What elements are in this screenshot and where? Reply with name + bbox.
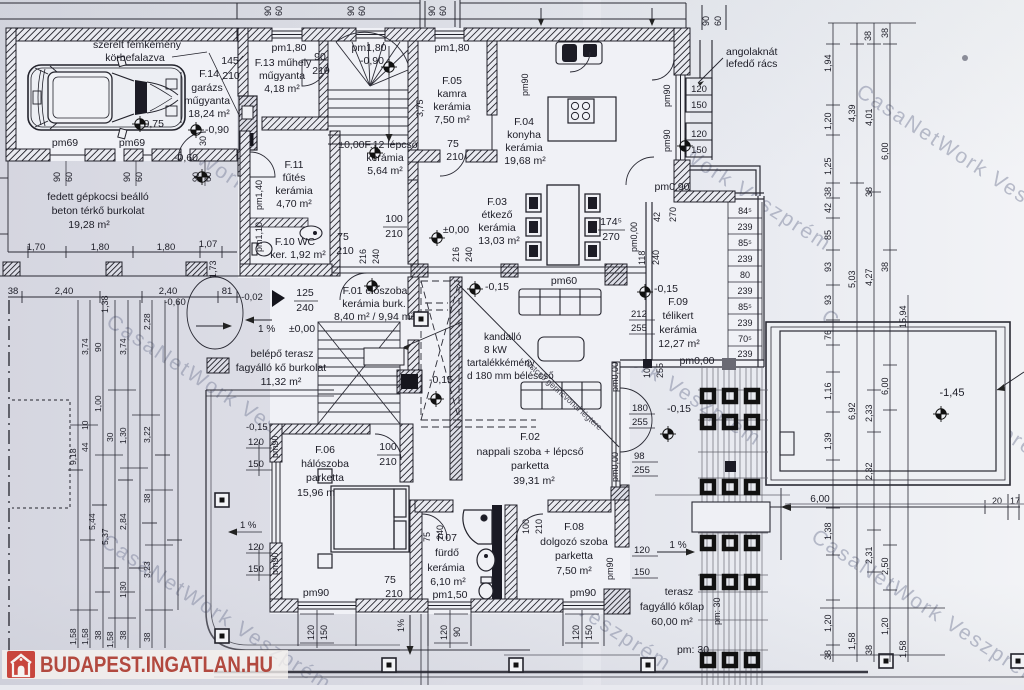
svg-text:240: 240 — [464, 247, 474, 262]
corner pier SE — [604, 589, 630, 614]
svg-text:210: 210 — [312, 65, 330, 77]
svg-text:pm1,50: pm1,50 — [432, 589, 467, 601]
svg-text:75: 75 — [447, 138, 459, 150]
svg-text:d 180 mm béléscső: d 180 mm béléscső — [467, 371, 554, 382]
svg-text:pm1,40: pm1,40 — [254, 180, 264, 210]
svg-text:-0,15: -0,15 — [429, 374, 453, 386]
svg-text:pm1,10: pm1,10 — [254, 222, 264, 252]
svg-text:2,31: 2,31 — [864, 546, 874, 564]
svg-text:szerelt fémkémény: szerelt fémkémény — [93, 39, 182, 51]
svg-text:38: 38 — [880, 262, 890, 272]
svg-text:pm90: pm90 — [520, 73, 530, 96]
svg-text:15,96 m: 15,96 m — [297, 487, 335, 499]
building footprint (white floor areas) — [6, 28, 764, 614]
svg-text:90: 90 — [93, 342, 103, 352]
svg-text:4,70 m²: 4,70 m² — [276, 198, 312, 210]
svg-text:210: 210 — [446, 151, 464, 163]
svg-text:60: 60 — [274, 6, 284, 16]
svg-text:fedett gépkocsi beálló: fedett gépkocsi beálló — [47, 191, 149, 203]
wall garage west — [6, 28, 16, 152]
svg-text:93: 93 — [823, 295, 833, 305]
svg-text:F.06: F.06 — [315, 444, 335, 456]
svg-text:1,25: 1,25 — [823, 157, 833, 175]
svg-text:212: 212 — [631, 309, 647, 320]
svg-text:6,00: 6,00 — [880, 377, 890, 395]
svg-text:2,28: 2,28 — [142, 313, 152, 330]
svg-text:7,50 m²: 7,50 m² — [556, 565, 592, 577]
svg-text:pm0,90: pm0,90 — [654, 181, 689, 193]
svg-text:kandalló: kandalló — [484, 332, 522, 343]
svg-text:-0,02: -0,02 — [241, 292, 263, 303]
svg-text:terasz: terasz — [665, 586, 694, 598]
svg-text:120: 120 — [248, 542, 264, 553]
terrace bottom step lines — [400, 649, 530, 651]
svg-text:1,58: 1,58 — [80, 628, 90, 645]
svg-text:pm90: pm90 — [662, 129, 672, 152]
svg-text:18,24 m²: 18,24 m² — [188, 108, 230, 120]
svg-text:fagyálló kőlap: fagyálló kőlap — [640, 601, 704, 613]
stairs lower flight by eloszoba — [318, 322, 400, 424]
svg-text:pm90: pm90 — [605, 557, 615, 580]
svg-text:7,50 m²: 7,50 m² — [434, 114, 470, 126]
pool bottom dim line 6,00 / 20/17 — [766, 488, 1020, 560]
svg-text:angolaknát: angolaknát — [726, 46, 777, 58]
svg-text:belépő terasz: belépő terasz — [250, 348, 313, 360]
dolgozo east dim stubs — [629, 320, 658, 578]
svg-text:étkező: étkező — [482, 209, 513, 221]
svg-text:fürdő: fürdő — [435, 547, 459, 559]
svg-text:pm0,00: pm0,00 — [610, 362, 620, 392]
wall haloszoba west — [270, 424, 282, 462]
svg-text:beton térkő burkolat: beton térkő burkolat — [52, 205, 145, 217]
svg-text:100: 100 — [385, 213, 403, 225]
tartalekkemeny black flue — [397, 370, 422, 393]
level node symbols — [188, 122, 204, 138]
svg-text:38: 38 — [142, 632, 152, 642]
svg-text:15,94: 15,94 — [898, 305, 908, 328]
svg-text:1 %: 1 % — [669, 540, 686, 551]
svg-text:90: 90 — [427, 6, 437, 16]
svg-text:85⁵: 85⁵ — [738, 302, 752, 312]
svg-text:nappali szoba + lépcső: nappali szoba + lépcső — [476, 446, 583, 458]
svg-text:F.11: F.11 — [284, 159, 303, 171]
svg-text:-0,15: -0,15 — [654, 283, 678, 295]
wall haloszoba top — [282, 424, 370, 434]
mirrors — [117, 56, 126, 67]
svg-text:kerámia: kerámia — [427, 562, 465, 574]
svg-text:42: 42 — [652, 212, 662, 222]
svg-text:1,70: 1,70 — [27, 242, 46, 253]
svg-text:8,40 m² / 9,94 m²: 8,40 m² / 9,94 m² — [334, 311, 414, 323]
open line etkezo/nappali — [332, 267, 646, 273]
svg-text:60: 60 — [438, 6, 448, 16]
svg-text:-0,90: -0,90 — [360, 55, 384, 67]
big diagonal section line — [458, 284, 619, 447]
chimney block — [239, 96, 257, 150]
svg-text:150: 150 — [691, 100, 707, 111]
svg-text:150: 150 — [248, 564, 264, 575]
wall house top (4 segments with window gaps) — [248, 28, 272, 41]
svg-text:210: 210 — [385, 588, 403, 600]
svg-text:kerámia: kerámia — [478, 222, 516, 234]
gray dim line to pool — [785, 503, 1024, 505]
top boundary dimension lines — [0, 0, 726, 30]
svg-text:19,28 m²: 19,28 m² — [68, 219, 110, 231]
svg-text:270: 270 — [668, 207, 678, 222]
svg-text:lefedő rács: lefedő rács — [726, 58, 777, 70]
svg-text:pm90: pm90 — [570, 587, 596, 599]
kitchen counter + sink on top wall — [556, 42, 602, 64]
svg-text:76: 76 — [823, 330, 833, 340]
svg-text:240: 240 — [435, 525, 445, 540]
svg-text:38: 38 — [823, 650, 833, 660]
svg-text:90: 90 — [701, 16, 711, 26]
svg-text:93: 93 — [823, 262, 833, 272]
svg-text:125: 125 — [296, 287, 314, 299]
svg-text:9,18: 9,18 — [68, 448, 78, 465]
bath dark wall — [492, 505, 502, 599]
svg-text:pm90: pm90 — [662, 84, 672, 107]
wall futes/eloszoba divider — [330, 131, 340, 276]
svg-text:120: 120 — [691, 84, 707, 95]
svg-text:4,18 m²: 4,18 m² — [264, 83, 300, 95]
svg-text:44: 44 — [80, 442, 90, 452]
svg-text:11,32 m²: 11,32 m² — [261, 376, 302, 388]
svg-text:1 %: 1 % — [240, 520, 257, 531]
carport side edge lines — [0, 161, 240, 303]
svg-text:F.02: F.02 — [520, 431, 540, 443]
svg-text:239: 239 — [737, 254, 752, 264]
svg-text:kamra: kamra — [437, 88, 466, 100]
svg-text:60,00 m²: 60,00 m² — [651, 616, 693, 628]
svg-text:1,39: 1,39 — [823, 432, 833, 450]
svg-text:1,30: 1,30 — [118, 427, 128, 444]
svg-text:pm0,00: pm0,00 — [610, 452, 620, 482]
svg-text:pm1,80: pm1,80 — [271, 42, 306, 54]
entrance arrow triangle — [272, 290, 285, 307]
wall L to telikert — [674, 191, 735, 202]
svg-text:240: 240 — [296, 302, 314, 314]
svg-text:239: 239 — [737, 349, 752, 359]
svg-text:38: 38 — [8, 286, 19, 297]
wall south of stairs/kamra — [408, 150, 440, 162]
svg-text:174⁵: 174⁵ — [600, 216, 622, 228]
svg-text:90: 90 — [346, 6, 356, 16]
svg-text:2,33: 2,33 — [864, 404, 874, 422]
svg-text:pm1,80: pm1,80 — [434, 42, 469, 54]
svg-text:konyha: konyha — [507, 129, 541, 141]
shower — [463, 510, 492, 544]
svg-text:4,39: 4,39 — [847, 104, 857, 122]
telikert south door posts — [722, 358, 736, 370]
svg-text:8 kW: 8 kW — [484, 345, 507, 356]
svg-text:pm69: pm69 — [119, 137, 145, 149]
telikert east double wall — [757, 196, 759, 367]
svg-text:19,68 m²: 19,68 m² — [504, 155, 546, 167]
svg-text:270: 270 — [602, 231, 620, 243]
svg-text:210: 210 — [336, 245, 354, 257]
wall futes/WC divider — [250, 218, 308, 227]
logo house icon — [7, 651, 35, 678]
svg-text:1,80: 1,80 — [91, 242, 110, 253]
svg-text:81: 81 — [222, 286, 233, 297]
svg-text:F.09: F.09 — [668, 296, 688, 308]
leader lines F.14 — [172, 52, 207, 57]
svg-text:-0,15: -0,15 — [246, 422, 268, 433]
svg-text:150: 150 — [634, 567, 650, 578]
svg-text:239: 239 — [737, 222, 752, 232]
svg-text:1,80: 1,80 — [157, 242, 176, 253]
wc furdo — [479, 577, 493, 599]
svg-text:F.04: F.04 — [514, 116, 534, 128]
svg-text:42: 42 — [823, 203, 833, 213]
svg-text:210: 210 — [222, 70, 240, 82]
svg-text:120: 120 — [439, 625, 449, 640]
svg-text:kerámia: kerámia — [275, 185, 313, 197]
svg-text:38: 38 — [864, 645, 874, 655]
svg-text:pm0,00: pm0,00 — [679, 355, 714, 367]
wall furdo west — [410, 500, 422, 599]
svg-text:255: 255 — [631, 323, 647, 334]
svg-text:1,20: 1,20 — [880, 617, 890, 635]
svg-text:239: 239 — [737, 318, 752, 328]
svg-text:108: 108 — [642, 363, 652, 378]
svg-text:3,74: 3,74 — [118, 338, 128, 355]
svg-text:dolgozó szoba: dolgozó szoba — [540, 536, 608, 548]
svg-text:30: 30 — [198, 136, 208, 146]
property dashed line — [8, 300, 10, 660]
svg-text:1,07: 1,07 — [199, 239, 218, 250]
svg-text:90: 90 — [314, 51, 326, 63]
wall garage top — [6, 28, 237, 41]
wall etkezo/eloszoba divider — [408, 180, 418, 264]
svg-text:garázs: garázs — [191, 82, 223, 94]
svg-text:6,92: 6,92 — [847, 402, 857, 420]
svg-text:pm60: pm60 — [551, 275, 577, 287]
svg-text:6,10 m²: 6,10 m² — [430, 576, 466, 588]
svg-text:38: 38 — [142, 493, 152, 503]
speck — [962, 55, 968, 61]
carport dim labels — [8, 239, 263, 308]
west window glazing — [272, 462, 280, 543]
svg-text:1,94: 1,94 — [823, 54, 833, 72]
svg-text:100: 100 — [379, 441, 397, 453]
south window glazing — [298, 602, 604, 609]
wall garage/house divider + chimney — [238, 28, 248, 96]
svg-text:1,58: 1,58 — [68, 628, 78, 645]
svg-text:kerámia: kerámia — [505, 142, 543, 154]
svg-text:-1,45: -1,45 — [939, 387, 964, 399]
svg-text:80: 80 — [740, 270, 750, 280]
svg-text:150: 150 — [691, 145, 707, 156]
outdoor table — [692, 502, 770, 532]
svg-text:216: 216 — [358, 249, 368, 264]
svg-text:210: 210 — [534, 519, 544, 534]
svg-text:255: 255 — [632, 417, 648, 428]
svg-text:84⁵: 84⁵ — [738, 206, 752, 216]
svg-text:-0,60: -0,60 — [174, 152, 198, 164]
svg-text:1,38: 1,38 — [100, 295, 110, 313]
svg-text:3,22: 3,22 — [142, 426, 152, 443]
svg-text:pm: 30: pm: 30 — [712, 597, 722, 625]
wall dolgozo west — [505, 505, 517, 599]
carport piers row — [3, 262, 229, 373]
svg-text:150: 150 — [584, 625, 594, 640]
svg-text:38: 38 — [880, 28, 890, 38]
svg-text:2,84: 2,84 — [118, 513, 128, 530]
telikert south line — [620, 359, 764, 361]
svg-text:38: 38 — [864, 187, 874, 197]
svg-text:38: 38 — [118, 630, 128, 640]
svg-text:-0,90: -0,90 — [205, 124, 229, 136]
window glazing in top wall — [272, 31, 464, 38]
svg-text:1,58: 1,58 — [105, 631, 115, 648]
svg-text:118: 118 — [637, 251, 647, 265]
svg-text:120: 120 — [634, 545, 650, 556]
svg-text:-0,15: -0,15 — [667, 403, 691, 415]
svg-text:1,58: 1,58 — [847, 632, 857, 650]
svg-text:90: 90 — [263, 6, 273, 16]
svg-text:ker. 1,92 m²: ker. 1,92 m² — [270, 249, 326, 261]
kandallo chimney wall strip — [450, 277, 462, 480]
svg-text:3,23: 3,23 — [142, 561, 152, 578]
svg-text:98: 98 — [634, 451, 645, 462]
svg-text:F.01 előszoba: F.01 előszoba — [343, 285, 408, 297]
entrance mat — [364, 348, 404, 365]
svg-text:180: 180 — [632, 403, 648, 414]
nappali east pier — [611, 487, 629, 500]
svg-text:39,31 m²: 39,31 m² — [513, 475, 555, 487]
wall west of futes/WC — [240, 131, 250, 276]
svg-text:2,40: 2,40 — [55, 286, 74, 297]
nappali east window glazing — [612, 362, 620, 487]
window dim stubs west wall — [230, 442, 272, 581]
svg-text:216: 216 — [451, 247, 461, 262]
svg-text:240: 240 — [371, 249, 381, 264]
bottom terrace long edge — [214, 671, 868, 674]
svg-text:1%: 1% — [396, 619, 406, 632]
wall kamra east — [487, 41, 497, 115]
svg-text:75: 75 — [337, 231, 349, 243]
top rotated dim labels 90/60 — [263, 6, 723, 26]
svg-text:pm90: pm90 — [270, 552, 280, 575]
wall F.13 south — [262, 117, 328, 130]
terrace rounded edge — [206, 390, 400, 650]
pier etkezo south-east corner — [605, 264, 627, 285]
svg-text:90: 90 — [122, 172, 132, 182]
svg-text:120: 120 — [691, 129, 707, 140]
svg-text:±0,00: ±0,00 — [443, 224, 469, 236]
kitchen island with hob — [548, 97, 616, 141]
svg-text:120: 120 — [571, 625, 581, 640]
pergola posts — [702, 390, 758, 666]
wall stair east — [408, 41, 418, 180]
svg-text:±0,00: ±0,00 — [289, 323, 315, 335]
svg-text:85⁵: 85⁵ — [738, 238, 752, 248]
svg-text:F.10 WC: F.10 WC — [275, 236, 316, 248]
svg-text:4,01: 4,01 — [864, 108, 874, 126]
svg-text:pm1,80: pm1,80 — [351, 42, 386, 54]
svg-text:2,32: 2,32 — [864, 462, 874, 480]
rotated small labels — [198, 73, 722, 625]
svg-text:műgyanta: műgyanta — [259, 70, 305, 82]
svg-text:1,73: 1,73 — [208, 260, 218, 278]
svg-text:F.13 műhely: F.13 műhely — [255, 57, 312, 69]
svg-text:2,50: 2,50 — [880, 557, 890, 575]
svg-text:-0,60: -0,60 — [164, 297, 186, 308]
svg-text:38: 38 — [863, 31, 873, 41]
angolakna light wells — [686, 40, 712, 160]
svg-text:pm0,00: pm0,00 — [629, 222, 639, 252]
svg-text:5,37: 5,37 — [100, 528, 110, 545]
svg-text:pm69: pm69 — [52, 137, 78, 149]
wall NE corner vertical — [674, 28, 690, 75]
scan fold highlight — [583, 0, 601, 685]
svg-text:145: 145 — [221, 55, 239, 67]
pier etkezo south-mid — [501, 264, 518, 277]
svg-text:60: 60 — [357, 6, 367, 16]
svg-text:-0,15: -0,15 — [485, 281, 509, 293]
svg-text:60: 60 — [134, 172, 144, 182]
svg-text:3,75: 3,75 — [415, 99, 425, 117]
svg-text:1,16: 1,16 — [823, 382, 833, 400]
svg-text:4,27: 4,27 — [864, 268, 874, 286]
svg-text:parketta: parketta — [555, 550, 593, 562]
detail ellipse — [187, 277, 243, 349]
wall stair west — [319, 41, 328, 117]
windshield dark — [135, 80, 147, 115]
telikert dim ladder column (east glazing sizes) — [728, 202, 762, 360]
svg-text:1,20: 1,20 — [823, 112, 833, 130]
svg-text:75: 75 — [422, 532, 432, 542]
svg-text:10: 10 — [80, 420, 90, 430]
svg-text:kerámia burk.: kerámia burk. — [342, 298, 406, 310]
svg-text:90: 90 — [452, 627, 462, 637]
wall stairwell east — [408, 277, 419, 319]
svg-text:120: 120 — [306, 625, 316, 640]
logo strip — [2, 650, 288, 679]
svg-text:150: 150 — [319, 625, 329, 640]
wall south of WC — [240, 264, 332, 276]
svg-text:5,64 m²: 5,64 m² — [367, 165, 403, 177]
svg-text:6,00: 6,00 — [880, 142, 890, 160]
washbasin — [477, 549, 495, 571]
svg-text:150: 150 — [248, 459, 264, 470]
svg-text:13,03 m²: 13,03 m² — [478, 235, 520, 247]
svg-text:F.05: F.05 — [442, 75, 462, 87]
pier etkezo south-west — [411, 264, 428, 277]
wall garage bottom pier row — [6, 149, 237, 161]
svg-text:70⁵: 70⁵ — [738, 334, 752, 344]
svg-text:5,44: 5,44 — [87, 513, 97, 530]
svg-text:255: 255 — [634, 465, 650, 476]
svg-text:5,03: 5,03 — [847, 270, 857, 288]
svg-text:12,27 m²: 12,27 m² — [658, 338, 700, 350]
svg-text:műgyanta: műgyanta — [184, 95, 230, 107]
svg-text:85: 85 — [823, 230, 833, 240]
east window strip (glazing) beside light wells — [676, 75, 685, 160]
svg-text:pm: 30: pm: 30 — [677, 644, 709, 656]
svg-text:kerámia: kerámia — [659, 324, 697, 336]
svg-text:38: 38 — [93, 630, 103, 640]
svg-text:BUDAPEST.INGATLAN.HU: BUDAPEST.INGATLAN.HU — [40, 652, 273, 677]
svg-text:1,20: 1,20 — [823, 614, 833, 632]
svg-text:255: 255 — [655, 363, 665, 378]
svg-text:1,00: 1,00 — [93, 395, 103, 412]
svg-text:parketta: parketta — [306, 472, 344, 484]
svg-text:fűtés: fűtés — [283, 172, 306, 184]
svg-text:210: 210 — [379, 456, 397, 468]
